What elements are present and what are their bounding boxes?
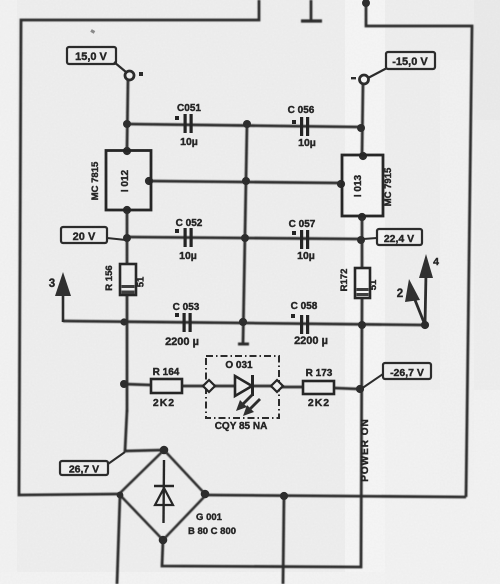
node ground rail / C051 row — [243, 120, 251, 128]
node I012 pin output — [145, 177, 153, 185]
wire frame top-left edge and left edge down to bottom-left corner — [19, 0, 259, 495]
polarity mark + — [139, 72, 143, 76]
node ground rail / C053 row — [239, 318, 247, 326]
capacitor C053 2200u — [165, 302, 200, 348]
value label 22,4 V — [363, 229, 422, 245]
scan speck — [90, 29, 95, 34]
terminal -15V — [360, 52, 436, 84]
node arrow 3 (off-page connector) — [49, 272, 71, 322]
node I013 pin bottom — [358, 213, 366, 221]
node 20V / C052 row — [123, 234, 131, 242]
capacitor C057 10u — [289, 219, 316, 262]
wire from bridge bottom vertex down, right, and up to POWER ON rail — [162, 298, 362, 567]
wire C051/C056 row — [127, 124, 361, 127]
wire I013 bottom to R172 — [361, 215, 364, 268]
node I013 pin input — [337, 180, 345, 188]
terminal stub top-center — [310, 0, 313, 20]
emission arrow 2 — [249, 399, 260, 410]
wire R173 to POWER ON rail — [334, 388, 359, 389]
node bottom border drop junction — [280, 492, 288, 500]
node bridge left vertex — [117, 492, 124, 499]
node ground rail / output row — [242, 177, 250, 185]
wire optocoupler anode — [213, 385, 235, 388]
terminal +15V — [67, 47, 134, 80]
node POWER ON rail / C058 row — [358, 321, 366, 329]
node ground rail / C052 row — [241, 234, 249, 242]
wire frame top-right edge and right edge — [366, 0, 472, 497]
value label -26,7 V — [361, 363, 431, 389]
node top border junction — [362, 0, 370, 7]
node +15V rail / C051 row — [123, 120, 131, 128]
wire I012 output down to 20V node — [126, 210, 129, 264]
value label 20 V — [61, 227, 126, 243]
node I012 pin top — [123, 147, 131, 155]
wire optocoupler output to R173 — [281, 386, 303, 389]
wire left rail to R164 — [124, 384, 151, 385]
pin node left — [203, 380, 215, 392]
wire +15V terminal down to C051 row — [127, 79, 128, 148]
wire -15V terminal down to I013 — [362, 83, 363, 155]
value label 26,7 V — [60, 452, 125, 476]
regulator I012 MC7815 — [90, 151, 151, 211]
regulator I013 MC7915 — [342, 155, 394, 216]
capacitor C056 10u — [288, 105, 316, 149]
wire from positive rail into bridge top vertex — [125, 410, 164, 451]
node left rail / R164 row — [120, 380, 128, 388]
wire C052/C057 row — [127, 237, 362, 239]
resistor R173 2K2 — [303, 368, 334, 409]
wire drop to bottom border at x=284 — [283, 496, 284, 584]
pin node right — [271, 380, 283, 392]
node I012 pin bottom — [123, 206, 131, 214]
wire frame bottom edge right of bridge — [206, 495, 466, 497]
node left rail / C053 row — [120, 318, 127, 325]
wire R156 bottom down the left rail — [126, 295, 129, 412]
bridge rectifier G001 diamond outline — [119, 450, 206, 540]
bridge rectifier G001 B80C800 diode symbol — [154, 460, 236, 537]
node arrow 2 (off-page connector) — [397, 279, 425, 325]
wire center ground rail — [243, 124, 247, 343]
node arrows 2 and 4 origin — [421, 321, 429, 329]
node bridge bottom vertex — [159, 536, 168, 545]
node 22,4V / C057 row — [357, 236, 365, 244]
capacitor C052 10u — [175, 218, 203, 262]
node I013 pin top — [359, 152, 367, 160]
resistor R172 51 — [339, 268, 379, 298]
node bridge right vertex — [201, 490, 210, 499]
wire regulator output row — [148, 181, 341, 183]
wire drop from bridge left vertex to bottom border — [117, 495, 120, 584]
LED of optocoupler — [235, 376, 252, 396]
ground rail end bar — [238, 343, 249, 346]
terminal stub bar — [301, 19, 322, 22]
node arrow 4 (off-page connector) — [419, 254, 439, 325]
capacitor C051 10u — [175, 103, 201, 148]
node bridge top vertex — [160, 446, 169, 455]
polarity mark - — [351, 77, 356, 79]
resistor R164 2K2 — [151, 367, 182, 409]
wire C053/C058 row — [63, 321, 425, 325]
wire R164 to optocoupler input — [182, 385, 205, 388]
wire optocoupler cathode — [253, 385, 273, 388]
node -26,7V junction — [356, 385, 364, 393]
optocoupler O031 CQY85NA — [203, 356, 283, 432]
emission arrow 1 — [242, 394, 253, 405]
node -15V rail / C056 row — [357, 124, 365, 132]
capacitor C058 2200u — [291, 301, 328, 347]
resistor R156 51 — [104, 264, 147, 295]
